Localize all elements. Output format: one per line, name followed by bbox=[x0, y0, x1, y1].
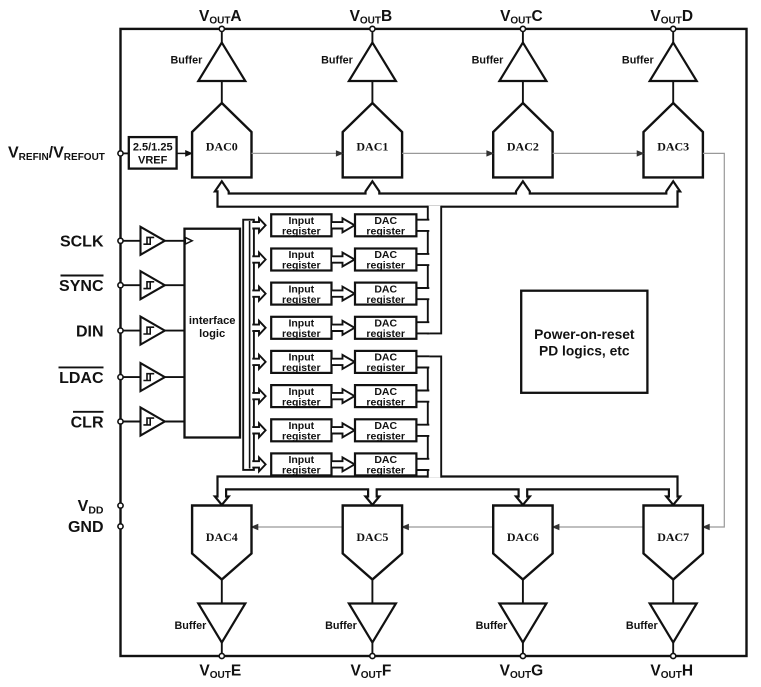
arrow input register to DAC register row 5 bbox=[332, 355, 355, 369]
wire SYNC pin to schmitt buffer bbox=[123, 284, 140, 286]
pin CLR label bbox=[71, 412, 104, 432]
op-amp buffer D bbox=[650, 43, 697, 81]
wire VOUTC to buffer bbox=[522, 32, 524, 44]
svg-text:PD logics, etc: PD logics, etc bbox=[539, 344, 630, 359]
DAC register row 8 bbox=[355, 453, 416, 475]
svg-text:Buffer: Buffer bbox=[472, 55, 505, 67]
svg-text:DAC6: DAC6 bbox=[507, 530, 539, 544]
label Buffer A bbox=[171, 55, 204, 67]
pin VOUTE label bbox=[199, 663, 241, 682]
arrow bus into input register row 3 bbox=[252, 287, 265, 301]
svg-text:register: register bbox=[366, 226, 405, 238]
label DAC2 bbox=[507, 140, 539, 154]
wire DAC5 to buffer bbox=[371, 580, 373, 605]
svg-text:register: register bbox=[366, 362, 405, 374]
op-amp buffer C bbox=[499, 43, 546, 81]
pin DIN terminal bbox=[118, 328, 123, 333]
pin SCLK terminal bbox=[118, 238, 123, 243]
label DAC register 8 bbox=[366, 454, 405, 477]
label interface logic bbox=[189, 315, 236, 340]
op-amp buffer E bbox=[198, 604, 245, 643]
DAC DAC5 bbox=[343, 506, 402, 580]
DAC DAC1 bbox=[343, 103, 402, 177]
svg-text:register: register bbox=[366, 465, 405, 477]
pin DIN label bbox=[76, 323, 104, 340]
arrow input register to DAC register row 2 bbox=[332, 253, 355, 267]
label Buffer D bbox=[622, 55, 655, 67]
svg-text:Buffer: Buffer bbox=[175, 620, 208, 632]
bus interface logic to input registers (hollow channel) bbox=[243, 220, 254, 470]
wire DAC6 to buffer bbox=[522, 580, 524, 605]
svg-text:LDAC: LDAC bbox=[59, 370, 104, 387]
op-amp buffer F bbox=[349, 604, 396, 643]
svg-text:register: register bbox=[366, 431, 405, 443]
wire buffer D to DAC3 bbox=[672, 81, 674, 105]
arrow input register to DAC register row 1 bbox=[332, 218, 355, 232]
svg-text:register: register bbox=[282, 260, 321, 272]
arrow input register to DAC register row 7 bbox=[332, 423, 355, 437]
wire DAC7 to buffer bbox=[672, 580, 674, 605]
pin CLR terminal bbox=[118, 419, 123, 424]
interface logic block bbox=[185, 229, 241, 438]
label Buffer G bbox=[476, 620, 509, 632]
svg-text:DAC7: DAC7 bbox=[657, 530, 689, 544]
pin SCLK label bbox=[60, 234, 104, 251]
wire schmitt SCLK to interface logic bbox=[165, 240, 185, 242]
pin VOUTF terminal bbox=[370, 653, 375, 658]
wire DAC0 to DAC1 reference chain bbox=[252, 151, 343, 156]
input register row 6 bbox=[271, 385, 331, 407]
stub DAC register row 1 to bus stem bbox=[416, 220, 430, 231]
DAC DAC3 bbox=[644, 103, 703, 177]
svg-text:register: register bbox=[282, 465, 321, 477]
wire DAC1 to DAC2 reference chain bbox=[402, 151, 493, 156]
DAC register row 4 bbox=[355, 317, 416, 339]
DAC DAC7 bbox=[644, 506, 703, 580]
stub DAC register row 2 to bus stem bbox=[416, 254, 430, 265]
pin VOUTC terminal bbox=[520, 26, 525, 31]
wire LDAC pin to schmitt buffer bbox=[123, 376, 140, 378]
wire schmitt SYNC to interface logic bbox=[165, 284, 185, 286]
input register row 4 bbox=[271, 317, 331, 339]
svg-text:DAC2: DAC2 bbox=[507, 140, 539, 154]
input register row 8 bbox=[271, 453, 331, 475]
bus DAC-register outputs to DAC0-3 (hollow channel with arrows) bbox=[215, 181, 680, 206]
DAC register row 6 bbox=[355, 385, 416, 407]
wire VOUTB to buffer bbox=[371, 32, 373, 44]
label Buffer C bbox=[472, 55, 505, 67]
svg-text:Buffer: Buffer bbox=[325, 620, 358, 632]
pin LDAC terminal bbox=[118, 375, 123, 380]
svg-text:register: register bbox=[282, 362, 321, 374]
arrow bus into input register row 8 bbox=[252, 457, 265, 471]
bus stem rows1-4 to top bus bbox=[428, 206, 441, 334]
wire DAC2 to DAC3 reference chain bbox=[553, 151, 644, 156]
arrow bus into input register row 1 bbox=[252, 218, 265, 232]
wire buffer G to VOUTG bbox=[522, 643, 524, 654]
label input register 1 bbox=[282, 215, 321, 238]
wire CLR pin to schmitt buffer bbox=[123, 421, 140, 423]
pin VOUTA label bbox=[199, 8, 242, 27]
svg-text:register: register bbox=[282, 226, 321, 238]
schmitt trigger buffer DIN bbox=[141, 317, 165, 345]
power-on-reset block bbox=[521, 291, 647, 393]
label Buffer E bbox=[175, 620, 208, 632]
pin VOUTB terminal bbox=[370, 26, 375, 31]
wire SCLK pin to schmitt buffer bbox=[123, 240, 140, 242]
label input register 8 bbox=[282, 454, 321, 477]
pin VOUTD label bbox=[650, 8, 693, 27]
arrow bus into input register row 5 bbox=[252, 355, 265, 369]
arrow bus into input register row 2 bbox=[252, 253, 265, 267]
svg-text:interface: interface bbox=[189, 315, 236, 327]
svg-text:DAC3: DAC3 bbox=[657, 140, 689, 154]
label DAC5 bbox=[356, 530, 388, 544]
label DAC7 bbox=[657, 530, 689, 544]
wire DAC5 to DAC4 reference chain bbox=[252, 524, 343, 529]
wire schmitt CLR to interface logic bbox=[165, 421, 185, 423]
op-amp buffer H bbox=[650, 604, 697, 643]
svg-text:Buffer: Buffer bbox=[622, 55, 655, 67]
svg-text:GND: GND bbox=[68, 519, 104, 536]
stub DAC register row 8 to bus stem bbox=[416, 459, 430, 470]
wire buffer A to DAC0 bbox=[221, 81, 223, 105]
DAC DAC2 bbox=[493, 103, 552, 177]
pin VOUTG label bbox=[500, 663, 544, 682]
svg-text:VREF: VREF bbox=[138, 155, 168, 167]
label DAC4 bbox=[206, 530, 238, 544]
label DAC1 bbox=[356, 140, 388, 154]
pin VOUTH terminal bbox=[671, 653, 676, 658]
op-amp buffer B bbox=[349, 43, 396, 81]
wire buffer E to VOUTE bbox=[221, 643, 223, 654]
svg-text:register: register bbox=[282, 396, 321, 408]
arrow bus into input register row 7 bbox=[252, 423, 265, 437]
svg-text:Power-on-reset: Power-on-reset bbox=[534, 327, 635, 342]
op-amp buffer G bbox=[499, 604, 546, 643]
wire VREF pin to VREF box bbox=[123, 152, 129, 154]
svg-text:register: register bbox=[366, 396, 405, 408]
label DAC register 4 bbox=[366, 318, 405, 341]
label DAC register 3 bbox=[366, 283, 405, 306]
wire DAC7 to DAC6 reference chain bbox=[553, 524, 644, 529]
svg-text:Buffer: Buffer bbox=[476, 620, 509, 632]
wire buffer C to DAC2 bbox=[522, 81, 524, 105]
label VREFIN/VREFOUT bbox=[8, 145, 105, 164]
input register row 7 bbox=[271, 419, 331, 441]
stub DAC register row 6 to bus stem bbox=[416, 391, 430, 402]
label DAC register 6 bbox=[366, 386, 405, 409]
pin SYNC label bbox=[59, 276, 104, 296]
pin LDAC label bbox=[59, 367, 104, 387]
DAC DAC4 bbox=[192, 506, 251, 580]
pin GND terminal bbox=[118, 524, 123, 529]
label Buffer F bbox=[325, 620, 358, 632]
wire schmitt LDAC to interface logic bbox=[165, 376, 185, 378]
label input register 4 bbox=[282, 318, 321, 341]
arrow bus into input register row 4 bbox=[252, 321, 265, 335]
label Buffer H bbox=[626, 620, 659, 632]
wire VOUTD to buffer bbox=[672, 32, 674, 44]
DAC register row 7 bbox=[355, 419, 416, 441]
label DAC register 5 bbox=[366, 352, 405, 375]
input register row 1 bbox=[271, 214, 331, 236]
schmitt trigger buffer SCLK bbox=[141, 227, 165, 255]
svg-text:DAC4: DAC4 bbox=[206, 530, 238, 544]
DAC register row 2 bbox=[355, 249, 416, 271]
arrow SCLK into interface logic bbox=[185, 238, 192, 245]
svg-text:register: register bbox=[282, 431, 321, 443]
input register row 3 bbox=[271, 283, 331, 305]
pin VOUTD terminal bbox=[671, 26, 676, 31]
svg-text:register: register bbox=[366, 294, 405, 306]
DAC DAC6 bbox=[493, 506, 552, 580]
wire schmitt DIN to interface logic bbox=[165, 330, 185, 332]
svg-text:register: register bbox=[282, 294, 321, 306]
svg-text:Buffer: Buffer bbox=[171, 55, 204, 67]
svg-text:SCLK: SCLK bbox=[60, 234, 104, 251]
pin VOUTH label bbox=[650, 663, 693, 682]
pin VOUTF label bbox=[350, 663, 391, 682]
DAC register row 3 bbox=[355, 283, 416, 305]
wire VREF to DAC0 with arrow bbox=[177, 151, 192, 157]
wire buffer F to VOUTF bbox=[371, 643, 373, 654]
arrow input register to DAC register row 4 bbox=[332, 321, 355, 335]
DAC DAC0 bbox=[192, 103, 251, 177]
input register row 2 bbox=[271, 249, 331, 271]
wire buffer H to VOUTH bbox=[672, 643, 674, 654]
VREF block 2.5/1.25 bbox=[129, 137, 177, 169]
stub DAC register row 4 to bus stem bbox=[416, 322, 430, 333]
label input register 3 bbox=[282, 283, 321, 306]
label DAC register 2 bbox=[366, 249, 405, 272]
arrow input register to DAC register row 8 bbox=[332, 457, 355, 471]
svg-text:Buffer: Buffer bbox=[626, 620, 659, 632]
pin VOUTB label bbox=[350, 8, 393, 27]
label DAC register 7 bbox=[366, 420, 405, 443]
input register row 5 bbox=[271, 351, 331, 373]
arrow bus into input register row 6 bbox=[252, 389, 265, 403]
svg-text:DAC0: DAC0 bbox=[206, 140, 238, 154]
pin VDD terminal bbox=[118, 503, 123, 508]
svg-text:register: register bbox=[366, 328, 405, 340]
arrow input register to DAC register row 6 bbox=[332, 389, 355, 403]
svg-text:DAC1: DAC1 bbox=[356, 140, 388, 154]
stub DAC register row 5 to bus stem bbox=[416, 356, 430, 367]
wire DAC3 to DAC7 reference chain bbox=[703, 153, 724, 529]
pin VDD label bbox=[78, 498, 104, 517]
pin VOUTE terminal bbox=[219, 653, 224, 658]
pin SYNC terminal bbox=[118, 283, 123, 288]
label DAC register 1 bbox=[366, 215, 405, 238]
svg-text:SYNC: SYNC bbox=[59, 278, 104, 295]
schmitt trigger buffer CLR bbox=[141, 408, 165, 436]
label DAC6 bbox=[507, 530, 539, 544]
pin GND label bbox=[68, 519, 104, 536]
label input register 6 bbox=[282, 386, 321, 409]
label power-on-reset bbox=[534, 327, 635, 359]
op-amp buffer A bbox=[198, 43, 245, 81]
bus stem rows5-8 to bottom bus bbox=[428, 356, 441, 477]
wire buffer B to DAC1 bbox=[371, 81, 373, 105]
stub DAC register row 3 to bus stem bbox=[416, 288, 430, 299]
label DAC0 bbox=[206, 140, 238, 154]
wire VOUTA to buffer bbox=[221, 32, 223, 44]
DAC register row 1 bbox=[355, 214, 416, 236]
pin VOUTG terminal bbox=[520, 653, 525, 658]
svg-text:logic: logic bbox=[199, 328, 225, 340]
label 2.5/1.25 VREF bbox=[133, 142, 173, 167]
label Buffer B bbox=[321, 55, 354, 67]
svg-text:2.5/1.25: 2.5/1.25 bbox=[133, 142, 173, 154]
svg-text:CLR: CLR bbox=[71, 414, 104, 431]
bus DAC-register outputs to DAC4-7 (hollow channel with arrows) bbox=[215, 477, 680, 505]
pin VREF terminal bbox=[118, 151, 123, 156]
chip boundary (outer border) bbox=[121, 29, 747, 656]
wire DAC4 to buffer bbox=[221, 580, 223, 605]
pin VOUTC label bbox=[500, 8, 543, 27]
schmitt trigger buffer LDAC bbox=[141, 363, 165, 391]
label DAC3 bbox=[657, 140, 689, 154]
pin VOUTA terminal bbox=[219, 26, 224, 31]
svg-text:DIN: DIN bbox=[76, 323, 104, 340]
svg-text:register: register bbox=[282, 328, 321, 340]
arrow input register to DAC register row 3 bbox=[332, 287, 355, 301]
svg-text:Buffer: Buffer bbox=[321, 55, 354, 67]
wire DIN pin to schmitt buffer bbox=[123, 330, 140, 332]
DAC register row 5 bbox=[355, 351, 416, 373]
label input register 2 bbox=[282, 249, 321, 272]
label input register 7 bbox=[282, 420, 321, 443]
stub DAC register row 7 to bus stem bbox=[416, 425, 430, 436]
svg-text:DAC5: DAC5 bbox=[356, 530, 388, 544]
schmitt trigger buffer SYNC bbox=[141, 271, 165, 299]
label input register 5 bbox=[282, 352, 321, 375]
wire DAC6 to DAC5 reference chain bbox=[402, 524, 493, 529]
svg-text:register: register bbox=[366, 260, 405, 272]
